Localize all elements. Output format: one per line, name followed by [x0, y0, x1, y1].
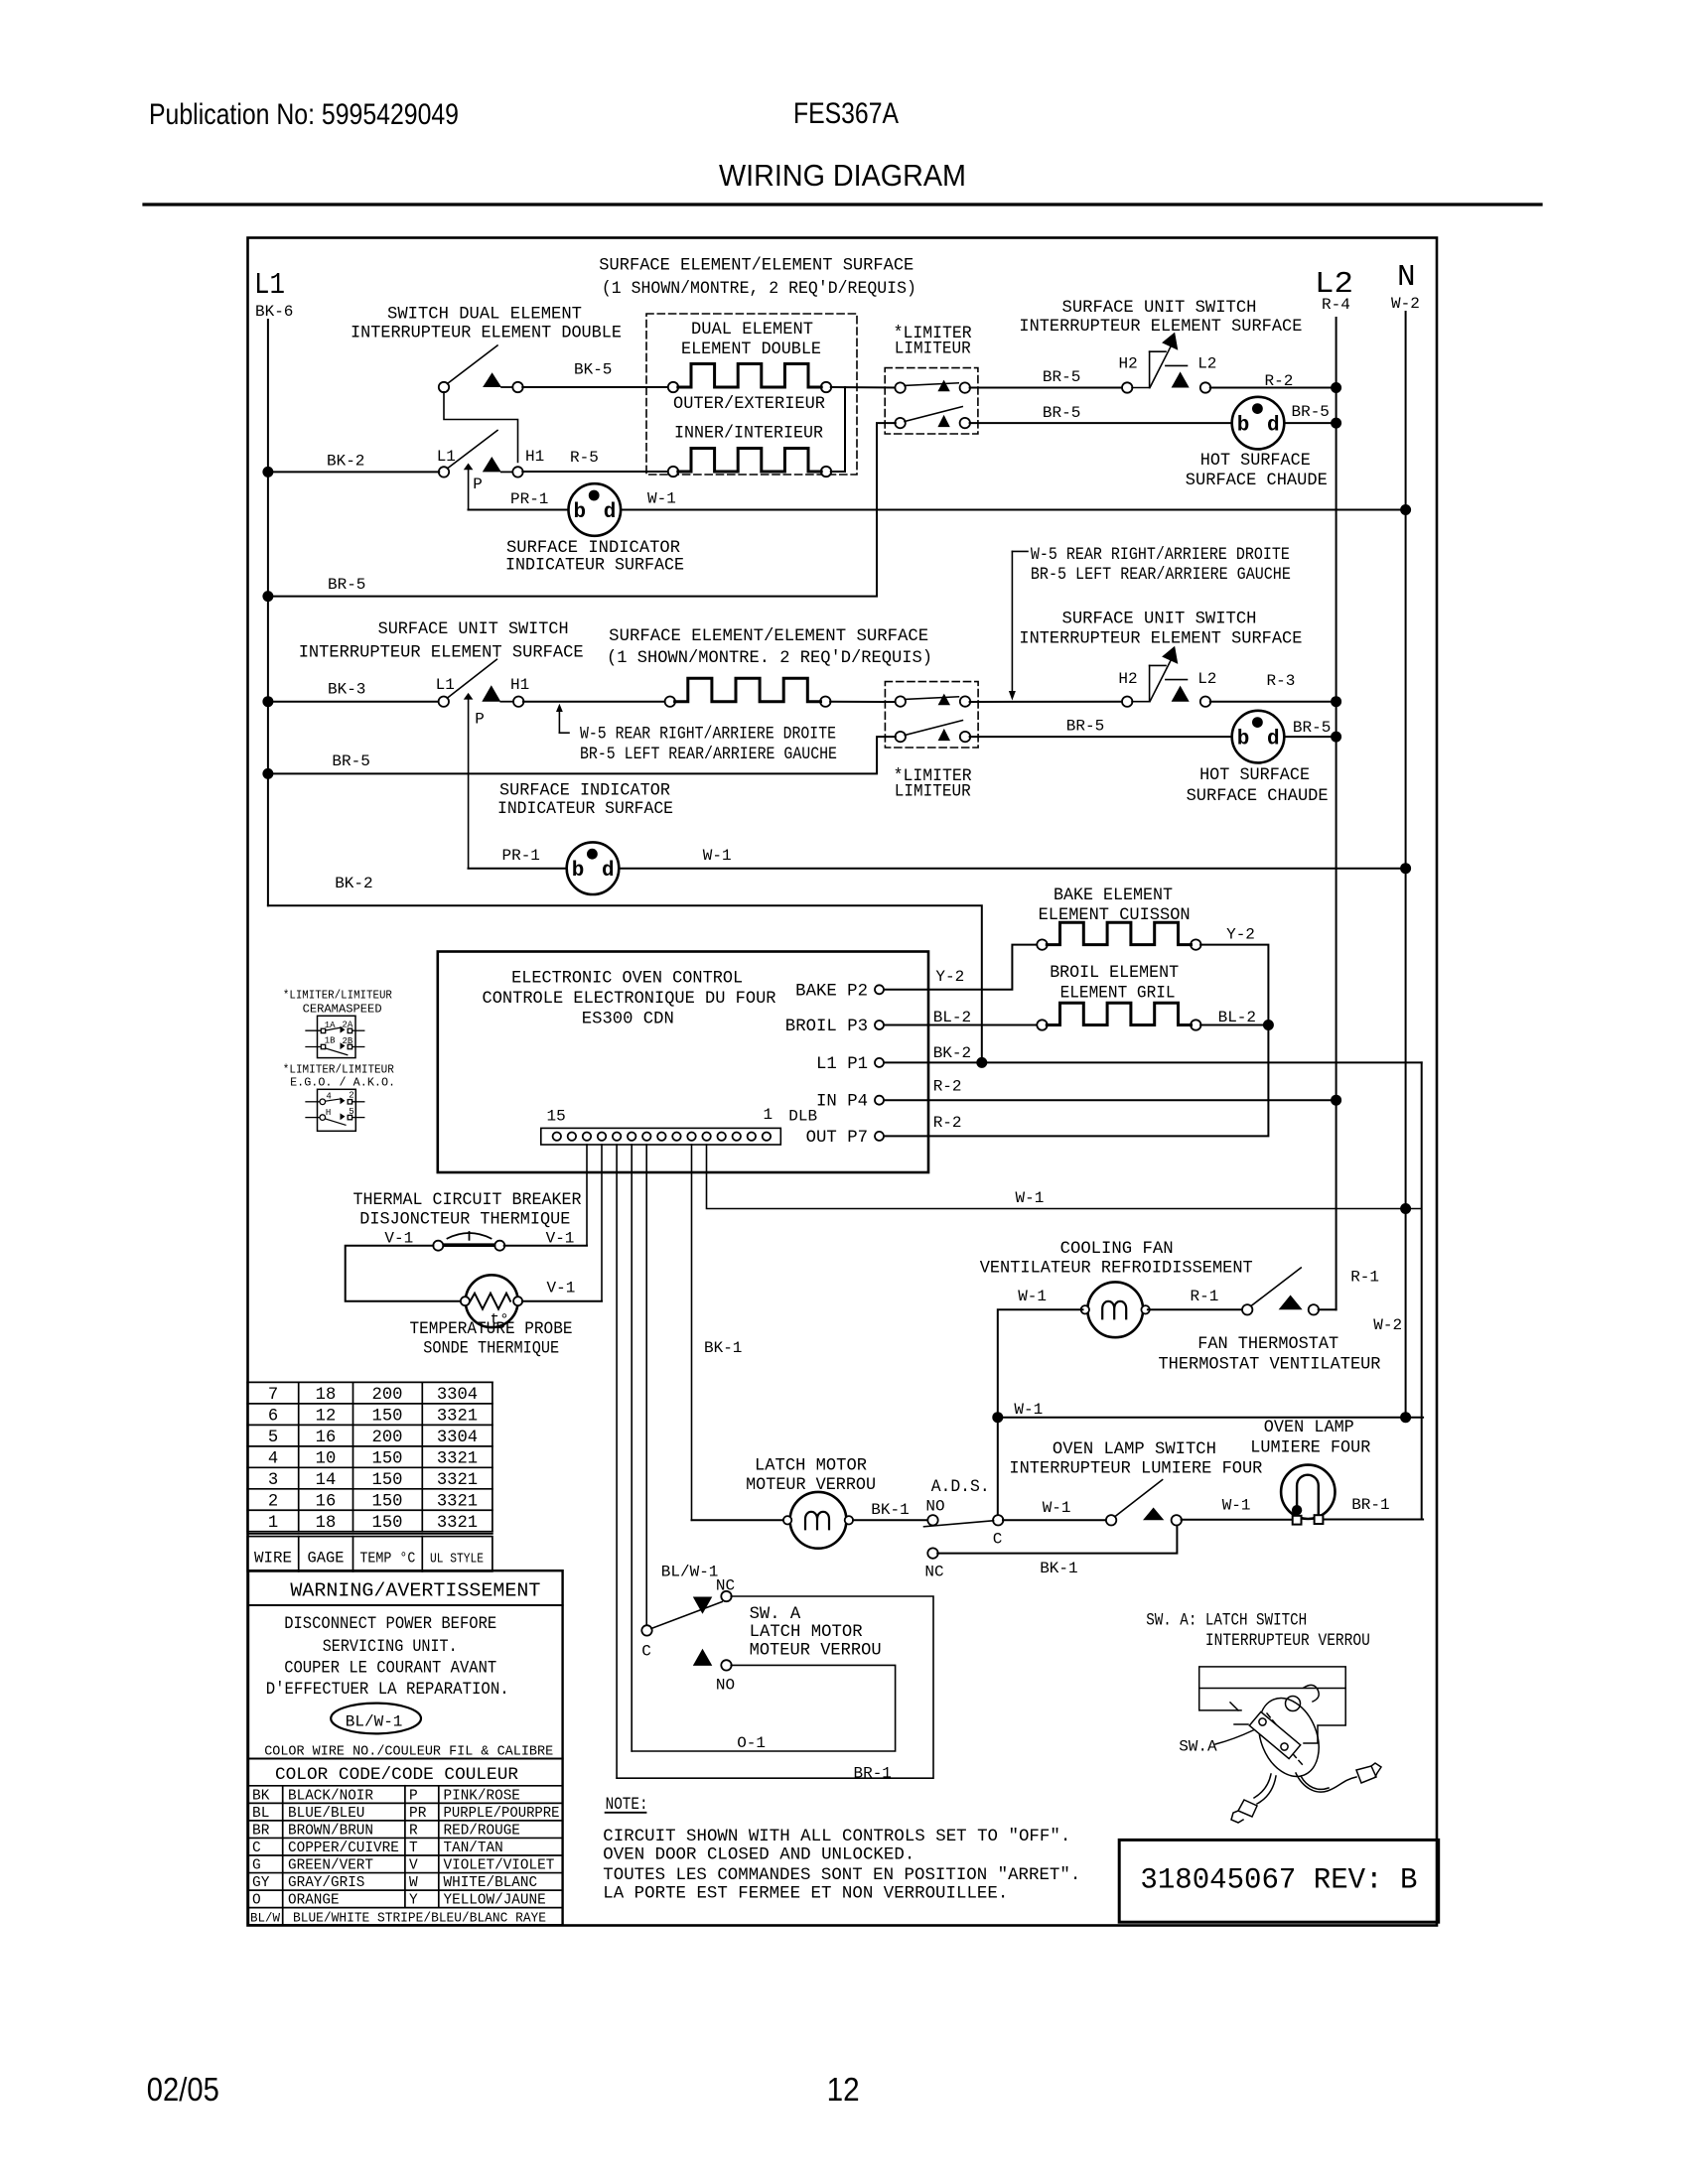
svg-text:TOUTES LES COMMANDES SONT EN P: TOUTES LES COMMANDES SONT EN POSITION "A…	[603, 1866, 1080, 1885]
svg-text:INDICATEUR SURFACE: INDICATEUR SURFACE	[497, 800, 673, 819]
svg-text:BAKE P2: BAKE P2	[795, 982, 868, 1001]
limiter TH3 ceramaspeed mini box	[306, 1016, 364, 1057]
junction L2 rail / BR-5 row1	[1331, 418, 1341, 429]
wire W-1 fan left down to ADS common	[998, 1309, 1083, 1516]
svg-text:2B: 2B	[343, 1036, 353, 1046]
svg-text:BR-5: BR-5	[1043, 404, 1080, 422]
svg-text:W-1: W-1	[1016, 1189, 1045, 1207]
svg-text:BR-5 LEFT REAR/ARRIERE GAUCHE: BR-5 LEFT REAR/ARRIERE GAUCHE	[1031, 566, 1291, 585]
svg-text:SURFACE INDICATOR: SURFACE INDICATOR	[506, 539, 680, 558]
svg-text:4: 4	[326, 1092, 331, 1102]
svg-text:Y-2: Y-2	[1226, 926, 1255, 944]
svg-text:2A: 2A	[343, 1020, 353, 1029]
svg-text:SW. A: LATCH SWITCH: SW. A: LATCH SWITCH	[1146, 1612, 1307, 1631]
svg-text:4: 4	[268, 1449, 278, 1468]
svg-text:BAKE ELEMENT: BAKE ELEMENT	[1054, 887, 1173, 905]
svg-text:(1 SHOWN/MONTRE, 2 REQ'D/REQUI: (1 SHOWN/MONTRE, 2 REQ'D/REQUIS)	[602, 280, 916, 299]
svg-text:150: 150	[372, 1407, 403, 1426]
junction broil return / bake return	[1263, 1020, 1274, 1030]
svg-text:150: 150	[372, 1492, 403, 1511]
svg-text:COOLING FAN: COOLING FAN	[1060, 1240, 1174, 1259]
svg-text:12: 12	[827, 2071, 860, 2108]
wire V-1 probe to DLB	[522, 1300, 602, 1302]
wire DLB pin9 down to SW.A common (BL/W-1)	[645, 1145, 647, 1626]
svg-text:3304: 3304	[437, 1386, 478, 1405]
wire BK-2 from L1 rail corner down to L1 P1	[268, 905, 982, 1062]
wire BK-1 motor to ADS NO	[853, 1519, 928, 1521]
svg-text:G: G	[252, 1858, 261, 1874]
wire L2 rail vertical lower to fan thermostat	[1336, 1100, 1337, 1309]
svg-text:SW.A: SW.A	[1179, 1738, 1217, 1756]
title rule	[144, 203, 1541, 205]
svg-text:ELEMENT DOUBLE: ELEMENT DOUBLE	[681, 341, 821, 359]
junction BK-2 / L1 P1	[976, 1057, 987, 1068]
switch S3 surface unit switch row2-left L1-H1	[439, 659, 524, 707]
svg-text:W-1: W-1	[647, 490, 676, 508]
svg-text:COPPER/CUIVRE: COPPER/CUIVRE	[288, 1841, 399, 1856]
svg-text:DUAL ELEMENT: DUAL ELEMENT	[691, 321, 813, 340]
wire W-1 indicator row2 to N rail	[619, 868, 1405, 870]
svg-text:3321: 3321	[437, 1449, 478, 1468]
svg-text:L2: L2	[1197, 670, 1216, 688]
svg-text:16: 16	[316, 1492, 337, 1511]
svg-text:5: 5	[349, 1107, 353, 1117]
junction L2 rail / R-3	[1331, 696, 1341, 707]
svg-text:BL/W: BL/W	[250, 1910, 280, 1925]
svg-text:MOTEUR VERROU: MOTEUR VERROU	[750, 1642, 882, 1661]
junction L2 rail / R-2	[1331, 382, 1341, 393]
svg-text:FAN THERMOSTAT: FAN THERMOSTAT	[1197, 1335, 1338, 1354]
svg-text:PR-1: PR-1	[510, 490, 548, 508]
electronic oven control U1 box	[438, 952, 928, 1173]
svg-text:T: T	[409, 1841, 418, 1856]
wire PR-1 row2	[469, 868, 567, 870]
junction L1 rail / BR-5 row2	[262, 768, 273, 779]
svg-text:d: d	[1267, 415, 1280, 438]
svg-text:LATCH MOTOR: LATCH MOTOR	[755, 1457, 867, 1476]
svg-text:INNER/INTERIEUR: INNER/INTERIEUR	[674, 425, 823, 444]
wire BK-3 L1 rail to switch row2	[268, 701, 439, 703]
note leader row2	[556, 704, 569, 734]
svg-text:IN P4: IN P4	[816, 1093, 868, 1112]
svg-text:2: 2	[268, 1492, 278, 1511]
wire BL-2 P3 to broil element	[884, 1024, 1038, 1026]
terminal P1 L1	[816, 1055, 884, 1074]
wire BR-5 limiter1 lower to hot surface row1	[970, 422, 1232, 424]
svg-text:BLUE/BLEU: BLUE/BLEU	[288, 1806, 364, 1822]
svg-text:H2: H2	[1118, 670, 1137, 688]
svg-text:18: 18	[316, 1514, 337, 1533]
svg-text:SURFACE CHAUDE: SURFACE CHAUDE	[1187, 787, 1329, 806]
svg-text:R-5: R-5	[570, 449, 599, 467]
svg-text:VENTILATEUR REFROIDISSEMENT: VENTILATEUR REFROIDISSEMENT	[980, 1260, 1253, 1279]
junction L1 rail / BK-3	[262, 696, 273, 707]
lamp E1 oven lamp	[1281, 1465, 1335, 1525]
svg-text:R-4: R-4	[1322, 296, 1350, 314]
terminal P3 BROIL	[785, 1018, 884, 1036]
svg-text:GRAY/GRIS: GRAY/GRIS	[288, 1875, 364, 1891]
heater element R4 broil element	[1037, 1020, 1047, 1029]
svg-text:C: C	[993, 1531, 1003, 1549]
wire PR-1 row1	[469, 509, 569, 511]
svg-text:3321: 3321	[437, 1514, 478, 1533]
svg-text:BLACK/NOIR: BLACK/NOIR	[288, 1788, 373, 1804]
svg-text:OUTER/EXTERIEUR: OUTER/EXTERIEUR	[673, 395, 825, 414]
switch S1 dual element lower pole L1-H1	[439, 431, 523, 478]
svg-text:CERAMASPEED: CERAMASPEED	[303, 1003, 382, 1017]
svg-text:d: d	[1267, 729, 1280, 751]
svg-text:CONTROLE ELECTRONIQUE DU FOUR: CONTROLE ELECTRONIQUE DU FOUR	[483, 990, 776, 1009]
svg-text:P: P	[409, 1788, 418, 1804]
svg-text:INTERRUPTEUR ELEMENT DOUBLE: INTERRUPTEUR ELEMENT DOUBLE	[351, 325, 622, 343]
svg-text:DISJONCTEUR THERMIQUE: DISJONCTEUR THERMIQUE	[359, 1210, 570, 1229]
junction N rail end / W-1	[1400, 1412, 1411, 1423]
switch S2 surface unit switch row1 H2-L2	[1122, 333, 1210, 393]
svg-text:R-2: R-2	[933, 1114, 962, 1132]
latch switch pictorial drawing	[1199, 1667, 1381, 1823]
svg-text:150: 150	[372, 1471, 403, 1490]
wire DLB pin10 down (O-1 loop)	[631, 1145, 633, 1751]
svg-text:PR: PR	[409, 1806, 427, 1822]
wire R-1 fan to thermostat	[1148, 1308, 1243, 1310]
indicator DS4 surface indicator row2	[567, 842, 620, 894]
motor M1 cooling fan	[1081, 1282, 1150, 1337]
svg-text:BR-5: BR-5	[1066, 717, 1104, 735]
terminal P7 OUT	[806, 1129, 884, 1148]
wire BR-5 limiter2 lower to hot surface row2	[970, 736, 1232, 738]
svg-text:NO: NO	[925, 1498, 944, 1516]
svg-text:INTERRUPTEUR VERROU: INTERRUPTEUR VERROU	[1205, 1632, 1370, 1651]
svg-text:C: C	[641, 1643, 651, 1661]
wire outer element to limiter1	[831, 386, 896, 389]
wire O-1 loop SW.A NO to DLB	[632, 1665, 895, 1751]
svg-text:E.G.O. / A.K.O.: E.G.O. / A.K.O.	[290, 1076, 395, 1090]
svg-text:3321: 3321	[437, 1407, 478, 1426]
wire W-1 indicator row1 to N rail	[621, 509, 1406, 511]
svg-text:P: P	[473, 476, 483, 493]
svg-text:3304: 3304	[437, 1429, 478, 1447]
wire N rail W-2 vertical	[1405, 312, 1407, 1418]
heater element R3 bake element	[1037, 939, 1047, 949]
svg-text:H2: H2	[1119, 355, 1138, 373]
junction L1 rail / BR-5 row1	[262, 591, 273, 602]
svg-text:L2: L2	[1197, 355, 1216, 373]
svg-text:WARNING/AVERTISSEMENT: WARNING/AVERTISSEMENT	[290, 1580, 540, 1602]
wire broil element to return	[1200, 1024, 1268, 1026]
svg-text:18: 18	[316, 1386, 337, 1405]
wire V-1 breaker loop to probe	[346, 1246, 461, 1301]
svg-text:*LIMITER/LIMITEUR: *LIMITER/LIMITEUR	[283, 1063, 394, 1077]
svg-text:1B: 1B	[325, 1036, 336, 1046]
wire gauge table	[247, 1382, 492, 1571]
svg-text:INDICATEUR SURFACE: INDICATEUR SURFACE	[505, 557, 684, 576]
svg-text:CIRCUIT SHOWN WITH ALL CONTROL: CIRCUIT SHOWN WITH ALL CONTROLS SET TO "…	[603, 1828, 1070, 1846]
svg-text:BR-5: BR-5	[1292, 403, 1330, 421]
svg-text:R-1: R-1	[1350, 1269, 1379, 1287]
wire BK-1 ADS NC to lamp switch	[937, 1525, 1177, 1554]
heater element R-inner (dual element inner)	[668, 467, 678, 477]
svg-text:SURFACE UNIT SWITCH: SURFACE UNIT SWITCH	[1062, 299, 1257, 318]
wire DLB pin13 to thermal breaker V-1	[586, 1145, 588, 1246]
wire BR-5 hot surface row2 to L2 rail	[1284, 736, 1336, 738]
wire inner element return jog	[831, 387, 845, 472]
switch S5 fan thermostat	[1242, 1268, 1319, 1315]
svg-text:L1 P1: L1 P1	[816, 1055, 868, 1074]
junction L2 rail / BR-5 row2	[1331, 732, 1341, 743]
wire W-1 from fan drop to BR-1 drop	[998, 1417, 1423, 1419]
svg-text:150: 150	[372, 1449, 403, 1468]
svg-text:R: R	[409, 1824, 418, 1840]
svg-text:d: d	[602, 860, 615, 883]
svg-text:H: H	[326, 1108, 331, 1118]
svg-text:INTERRUPTEUR ELEMENT SURFACE: INTERRUPTEUR ELEMENT SURFACE	[1019, 318, 1302, 337]
wire BR-5 hot surface to L2 rail row1	[1284, 422, 1336, 424]
svg-text:3321: 3321	[437, 1492, 478, 1511]
switch S1 dual element upper pole	[439, 345, 523, 392]
wire BK-2 right drop from L1 P1 to lamp	[1421, 1062, 1423, 1519]
svg-text:HOT SURFACE: HOT SURFACE	[1200, 452, 1311, 471]
wire R-2 to L2 rail	[1210, 387, 1336, 389]
svg-text:WIRING DIAGRAM: WIRING DIAGRAM	[719, 158, 966, 193]
svg-text:W-5 REAR RIGHT/ARRIERE DROITE: W-5 REAR RIGHT/ARRIERE DROITE	[580, 726, 836, 745]
svg-text:BR-5: BR-5	[1293, 719, 1331, 737]
svg-text:1A: 1A	[325, 1021, 336, 1030]
wire BR-5 row2 from L1 rail to limiter2 lower pole	[268, 737, 896, 773]
svg-text:A.D.S.: A.D.S.	[931, 1478, 990, 1497]
pilot tap P row1 (arrow)	[464, 464, 474, 510]
svg-text:SONDE THERMIQUE: SONDE THERMIQUE	[423, 1340, 559, 1359]
svg-text:LUMIERE FOUR: LUMIERE FOUR	[1250, 1439, 1370, 1458]
svg-text:*LIMITER/LIMITEUR: *LIMITER/LIMITEUR	[283, 989, 392, 1003]
svg-text:R-3: R-3	[1267, 672, 1296, 690]
svg-text:6: 6	[268, 1407, 278, 1426]
svg-text:ELEMENT GRIL: ELEMENT GRIL	[1060, 984, 1176, 1003]
svg-text:BK-1: BK-1	[1040, 1560, 1077, 1577]
svg-text:TEMP °C: TEMP °C	[359, 1551, 415, 1568]
svg-text:BR-5: BR-5	[332, 752, 369, 770]
wire V-1 breaker to DLB	[504, 1245, 587, 1247]
svg-text:SWITCH DUAL ELEMENT: SWITCH DUAL ELEMENT	[387, 306, 582, 325]
svg-text:C: C	[252, 1841, 261, 1856]
wire DLB pin6 down to latch motor BK-1	[691, 1145, 693, 1520]
svg-text:b: b	[574, 501, 587, 524]
svg-text:NC: NC	[924, 1564, 943, 1581]
svg-text:H1: H1	[510, 676, 529, 694]
svg-text:3: 3	[268, 1471, 278, 1490]
wire limiter2 to H2 row2	[970, 701, 1123, 703]
svg-text:SURFACE INDICATOR: SURFACE INDICATOR	[499, 782, 670, 801]
svg-text:BK-3: BK-3	[328, 681, 365, 699]
svg-text:OUT P7: OUT P7	[806, 1129, 868, 1148]
svg-text:W-1: W-1	[1043, 1499, 1071, 1517]
svg-text:LIMITEUR: LIMITEUR	[895, 783, 971, 802]
svg-text:INTERRUPTEUR LUMIERE FOUR: INTERRUPTEUR LUMIERE FOUR	[1009, 1460, 1262, 1479]
svg-text:O-1: O-1	[737, 1734, 766, 1752]
svg-text:UL STYLE: UL STYLE	[430, 1553, 484, 1568]
svg-text:200: 200	[372, 1429, 403, 1447]
wire R-5 H1 to inner element	[522, 471, 668, 473]
revision box 318045067 REV: B	[1119, 1840, 1439, 1922]
svg-text:BR-5 LEFT REAR/ARRIERE GAUCHE: BR-5 LEFT REAR/ARRIERE GAUCHE	[580, 746, 837, 764]
svg-text:BR: BR	[252, 1824, 270, 1840]
svg-text:BROIL P3: BROIL P3	[785, 1018, 868, 1036]
indicator DS3 hot surface row2	[1232, 711, 1285, 763]
svg-text:b: b	[572, 860, 585, 883]
svg-text:1: 1	[268, 1514, 278, 1533]
svg-text:N: N	[1397, 260, 1416, 295]
svg-text:HOT SURFACE: HOT SURFACE	[1199, 766, 1310, 785]
svg-text:b: b	[1237, 415, 1250, 438]
svg-text:THERMAL CIRCUIT BREAKER: THERMAL CIRCUIT BREAKER	[353, 1191, 582, 1210]
wire BR-1 loop SW.A NC to DLB	[617, 1596, 933, 1778]
wire thermostat to L2 rail corner	[1319, 1308, 1336, 1310]
svg-text:L1: L1	[436, 676, 455, 694]
svg-text:b: b	[1237, 729, 1250, 751]
svg-text:R-2: R-2	[933, 1078, 962, 1096]
svg-text:02/05: 02/05	[147, 2071, 219, 2108]
svg-text:BK-2: BK-2	[933, 1044, 971, 1062]
wire BK-2/L1 P1 to right drop	[884, 1061, 1422, 1063]
svg-text:BL: BL	[252, 1806, 269, 1822]
svg-text:INTERRUPTEUR ELEMENT SURFACE: INTERRUPTEUR ELEMENT SURFACE	[1019, 630, 1302, 649]
switch S7 oven lamp switch	[1106, 1480, 1182, 1526]
svg-text:W-1: W-1	[1018, 1288, 1047, 1305]
svg-text:COLOR WIRE NO./COULEUR FIL & C: COLOR WIRE NO./COULEUR FIL & CALIBRE	[264, 1745, 553, 1760]
svg-text:BLUE/WHITE STRIPE/BLEU/BLANC R: BLUE/WHITE STRIPE/BLEU/BLANC RAYE	[293, 1911, 546, 1926]
wire DLB pin12 to temperature probe V-1	[601, 1145, 603, 1301]
wire H1 to element row2	[523, 701, 665, 703]
svg-text:GREEN/VERT: GREEN/VERT	[288, 1858, 373, 1874]
wire BR-1 lamp to right drop	[1324, 1519, 1423, 1521]
svg-text:318045067 REV: B: 318045067 REV: B	[1140, 1864, 1417, 1898]
NOTE underline	[606, 1812, 646, 1814]
svg-text:L1: L1	[254, 268, 285, 303]
wire L1 rail BK-6 vertical	[267, 320, 269, 905]
svg-text:BR-5: BR-5	[1043, 368, 1080, 386]
limiter TH2 dashed box with two poles	[885, 682, 978, 748]
svg-text:TEMPERATURE PROBE: TEMPERATURE PROBE	[410, 1320, 573, 1339]
note leader row1	[1009, 551, 1028, 700]
svg-text:W-1: W-1	[703, 847, 732, 865]
svg-text:2: 2	[349, 1091, 353, 1101]
color code table	[248, 1786, 563, 1926]
svg-text:DLB: DLB	[788, 1107, 817, 1125]
svg-text:PURPLE/POURPRE: PURPLE/POURPRE	[444, 1806, 560, 1822]
svg-text:BL/W-1: BL/W-1	[346, 1713, 403, 1731]
svg-text:ES300 CDN: ES300 CDN	[582, 1011, 674, 1029]
switch SW.A latch motor switch	[641, 1591, 731, 1671]
svg-text:BROWN/BRUN: BROWN/BRUN	[288, 1824, 373, 1840]
svg-text:DISCONNECT POWER BEFORE: DISCONNECT POWER BEFORE	[284, 1615, 496, 1634]
svg-text:BR-1: BR-1	[854, 1765, 892, 1783]
wire DLB pin11 down (BR-1 loop)	[616, 1145, 618, 1778]
svg-text:GAGE: GAGE	[308, 1550, 345, 1568]
pilot tap P row2 (arrow)	[464, 693, 474, 869]
svg-text:7: 7	[268, 1386, 278, 1405]
wire L2 rail R-4 vertical upper	[1336, 318, 1337, 1100]
svg-text:OVEN DOOR CLOSED AND UNLOCKED.: OVEN DOOR CLOSED AND UNLOCKED.	[603, 1846, 914, 1865]
svg-text:TAN/TAN: TAN/TAN	[444, 1841, 503, 1856]
svg-text:O: O	[252, 1893, 261, 1909]
svg-text:12: 12	[316, 1407, 337, 1426]
svg-text:(1 SHOWN/MONTRE. 2 REQ'D/REQUI: (1 SHOWN/MONTRE. 2 REQ'D/REQUIS)	[607, 649, 932, 668]
svg-text:SURFACE CHAUDE: SURFACE CHAUDE	[1186, 472, 1328, 490]
svg-text:WIRE: WIRE	[254, 1550, 292, 1568]
dual element dashed box	[646, 314, 857, 475]
svg-text:COUPER LE COURANT AVANT: COUPER LE COURANT AVANT	[284, 1660, 496, 1679]
switch S4 surface unit switch row2 H2-L2	[1122, 646, 1210, 707]
wire R-3 to L2 rail	[1210, 701, 1336, 703]
svg-text:VIOLET/VIOLET: VIOLET/VIOLET	[444, 1858, 555, 1874]
svg-text:ELECTRONIC OVEN CONTROL: ELECTRONIC OVEN CONTROL	[511, 970, 743, 989]
svg-text:SURFACE UNIT SWITCH: SURFACE UNIT SWITCH	[378, 620, 569, 639]
svg-text:BL/W-1: BL/W-1	[661, 1564, 719, 1581]
svg-text:BK-2: BK-2	[335, 875, 372, 892]
wire BR-5 limiter1 to H2 row1	[970, 387, 1123, 389]
main diagram border	[248, 238, 1438, 1926]
connector DLB strip	[541, 1128, 781, 1145]
junction N rail / W-1 row2	[1400, 863, 1411, 874]
svg-text:V: V	[409, 1858, 418, 1874]
svg-text:1: 1	[764, 1106, 774, 1124]
svg-text:SERVICING UNIT.: SERVICING UNIT.	[323, 1638, 458, 1657]
svg-text:H1: H1	[525, 448, 544, 466]
svg-text:OVEN LAMP SWITCH: OVEN LAMP SWITCH	[1053, 1440, 1216, 1459]
svg-text:BK-2: BK-2	[327, 453, 364, 471]
svg-text:FES367A: FES367A	[793, 97, 899, 130]
wire BR-5 row1 from L1 rail to limiter1 lower pole	[268, 423, 896, 596]
svg-text:SURFACE ELEMENT/ELEMENT SURFAC: SURFACE ELEMENT/ELEMENT SURFACE	[599, 257, 914, 276]
leader SW.A pointer	[1215, 1730, 1253, 1744]
wire link between dual switch poles	[444, 392, 518, 463]
junction N rail / W-1 row1	[1400, 504, 1411, 515]
svg-text:W-1: W-1	[1222, 1497, 1251, 1515]
svg-text:OVEN LAMP: OVEN LAMP	[1264, 1419, 1354, 1437]
svg-text:LATCH MOTOR: LATCH MOTOR	[750, 1623, 863, 1642]
svg-text:15: 15	[547, 1107, 566, 1125]
svg-text:NO: NO	[716, 1677, 735, 1695]
svg-text:Y: Y	[409, 1893, 418, 1909]
wire BK-5 switch to outer element	[522, 386, 668, 388]
svg-text:WHITE/BLANC: WHITE/BLANC	[444, 1875, 538, 1891]
heater element R-outer (dual element outer)	[668, 382, 678, 392]
wire BK-2 L1 rail to switch	[268, 471, 439, 473]
indicator DS1 hot surface row1	[1232, 397, 1285, 450]
svg-text:THERMOSTAT VENTILATEUR: THERMOSTAT VENTILATEUR	[1159, 1356, 1381, 1375]
svg-text:INTERRUPTEUR ELEMENT SURFACE: INTERRUPTEUR ELEMENT SURFACE	[299, 644, 584, 663]
svg-text:YELLOW/JAUNE: YELLOW/JAUNE	[444, 1893, 546, 1909]
wire DLB pin5 W-1 to right	[707, 1145, 1422, 1209]
svg-text:BK: BK	[252, 1788, 270, 1804]
svg-text:BR-1: BR-1	[1351, 1496, 1389, 1514]
wire W-1 ADS C to lamp switch	[1003, 1519, 1106, 1521]
svg-text:Y-2: Y-2	[935, 968, 964, 986]
svg-text:L1: L1	[437, 448, 456, 466]
wire W-1 lamp switch to lamp	[1182, 1519, 1292, 1521]
wire R-2 IN P4 to L2 rail	[884, 1099, 1336, 1101]
terminal P4 IN	[816, 1093, 884, 1112]
thermal circuit breaker CB1	[433, 1232, 504, 1251]
svg-text:BK-1: BK-1	[871, 1501, 909, 1519]
svg-text:SURFACE UNIT SWITCH: SURFACE UNIT SWITCH	[1062, 611, 1257, 629]
svg-text:BK-1: BK-1	[704, 1339, 742, 1357]
junction L1 rail / BK-2	[262, 467, 273, 478]
svg-text:BR-5: BR-5	[328, 576, 365, 594]
svg-text:3321: 3321	[437, 1471, 478, 1490]
svg-text:10: 10	[316, 1449, 337, 1468]
wire Y-2 P2 to bake element	[884, 945, 1038, 990]
svg-text:5: 5	[268, 1429, 278, 1447]
